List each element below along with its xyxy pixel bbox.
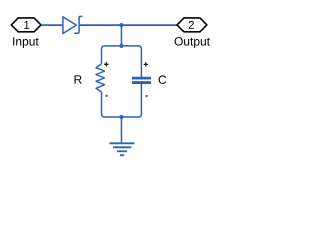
wire junction down to RC loop: [120, 25, 122, 46]
wire right branch top: [121, 46, 141, 77]
resistor minus mark: [106, 95, 108, 97]
wire diode to output port: [79, 24, 177, 26]
port Input (1): [11, 18, 41, 32]
ground: [110, 143, 135, 155]
resistor R: [96, 64, 105, 92]
wire to ground: [120, 117, 122, 143]
wire left branch bottom: [102, 92, 122, 117]
capacitor plus mark: [144, 62, 148, 66]
capacitor C plates: [132, 77, 151, 80]
label R: [75, 75, 82, 83]
wire input to diode: [41, 24, 63, 26]
resistor plus mark: [104, 62, 108, 66]
wire left branch top: [102, 46, 122, 64]
label C: [159, 75, 167, 84]
port Output (2): [177, 18, 207, 32]
capacitor minus mark: [146, 95, 148, 97]
diode D1: [63, 16, 82, 33]
wire right branch bottom: [121, 84, 141, 117]
node junction loop bottom: [119, 115, 123, 119]
label Output: [175, 37, 210, 48]
label Input: [13, 37, 39, 48]
node junction top: [119, 23, 123, 27]
node junction loop top: [119, 44, 123, 48]
